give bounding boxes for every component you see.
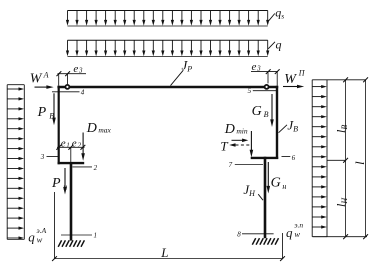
svg-text:W: W <box>284 72 297 87</box>
left column lower part axis <box>70 162 73 241</box>
dimension line l_B / l_H <box>343 77 348 239</box>
svg-text:w: w <box>37 235 43 245</box>
svg-text:q: q <box>276 37 282 51</box>
label J_P with leader <box>171 57 193 85</box>
node 4 label <box>52 89 85 97</box>
svg-text:e: e <box>61 138 66 150</box>
svg-text:D: D <box>224 122 235 137</box>
dimension connector bottom (base level) <box>313 236 367 238</box>
svg-text:w: w <box>294 229 300 239</box>
svg-text:5: 5 <box>248 87 252 95</box>
fixed support hatch left (node 1) <box>58 240 84 247</box>
svg-text:4: 4 <box>81 89 85 97</box>
svg-text:2: 2 <box>94 164 98 172</box>
svg-text:q: q <box>286 225 293 240</box>
svg-text:T: T <box>220 138 228 153</box>
right column lower part axis <box>264 157 267 238</box>
svg-text:7: 7 <box>229 161 233 169</box>
hinge node 5 circle (right beam end) <box>265 85 269 89</box>
dimension line l (total) <box>363 77 368 239</box>
svg-text:н: н <box>282 182 286 191</box>
svg-text:l: l <box>352 161 367 165</box>
dimension e3 left <box>57 63 87 86</box>
left column step shelf <box>58 162 85 164</box>
node 7 label <box>229 161 263 169</box>
svg-text:L: L <box>160 245 168 260</box>
svg-text:e: e <box>73 63 78 75</box>
force P_B arrow <box>37 93 56 125</box>
force D_min arrow <box>224 122 253 157</box>
svg-text:н: н <box>63 182 67 191</box>
svg-text:D: D <box>86 121 97 136</box>
node 5 label <box>248 87 277 95</box>
dimension connector top (roof level) <box>312 79 365 81</box>
svg-text:2: 2 <box>78 141 82 149</box>
dimension e1 e2 on left column <box>56 138 85 162</box>
svg-text:э.п: э.п <box>294 220 303 229</box>
distributed load q_s (snow) band <box>66 11 269 27</box>
svg-text:e: e <box>72 138 77 150</box>
force P_n arrow <box>51 168 67 195</box>
dimension L bottom <box>52 192 285 261</box>
label q with leader <box>268 37 281 51</box>
svg-text:P: P <box>37 105 47 120</box>
svg-text:W: W <box>30 72 43 87</box>
svg-text:6: 6 <box>292 154 296 162</box>
right column step shelf <box>251 157 279 159</box>
force W^P arrow <box>283 69 306 89</box>
label q_s with leader <box>269 6 284 21</box>
hinge node 4 circle (left beam end) <box>65 85 69 89</box>
force W^A arrow <box>30 70 54 89</box>
fixed support hatch right (node 8) <box>252 238 278 245</box>
force G_n arrow <box>267 162 287 194</box>
svg-text:G: G <box>271 176 281 191</box>
svg-text:3: 3 <box>78 67 83 75</box>
svg-text:А: А <box>43 70 49 79</box>
svg-text:3: 3 <box>256 65 261 73</box>
label q_w^e.A left wind <box>28 226 46 244</box>
force T arrows (solid right, dashed left) <box>220 138 250 153</box>
node 1 label <box>61 231 97 239</box>
label q_w^e.P right wind <box>286 220 303 239</box>
right column upper part axis <box>276 86 278 159</box>
left column upper part axis <box>58 86 60 164</box>
svg-text:В: В <box>264 110 269 119</box>
label J_H with leader <box>243 182 263 200</box>
svg-text:P: P <box>51 176 61 191</box>
force D_max arrow <box>81 121 111 161</box>
svg-text:В: В <box>49 112 54 121</box>
node 6 label <box>282 154 296 162</box>
svg-text:max: max <box>98 126 111 135</box>
svg-text:1: 1 <box>94 231 98 239</box>
force G_B arrow <box>252 94 274 127</box>
svg-text:8: 8 <box>237 231 241 239</box>
beam J_P rigel <box>57 86 278 89</box>
distributed load q (dead) band <box>66 40 269 56</box>
dimension connector middle (step level) <box>327 159 346 161</box>
svg-text:min: min <box>236 126 248 135</box>
dimension e3 right <box>251 61 280 86</box>
node 8 label <box>237 231 273 239</box>
node 2 label <box>73 164 98 172</box>
left wind load band q_w <box>7 85 24 240</box>
node 3 label <box>40 153 59 161</box>
label J_B with leader <box>279 117 299 133</box>
right wind load band q_w <box>312 80 327 237</box>
svg-text:e: e <box>252 61 257 73</box>
svg-text:1: 1 <box>66 141 70 149</box>
svg-text:G: G <box>252 104 262 119</box>
svg-text:q: q <box>28 230 35 245</box>
svg-text:3: 3 <box>40 153 45 161</box>
